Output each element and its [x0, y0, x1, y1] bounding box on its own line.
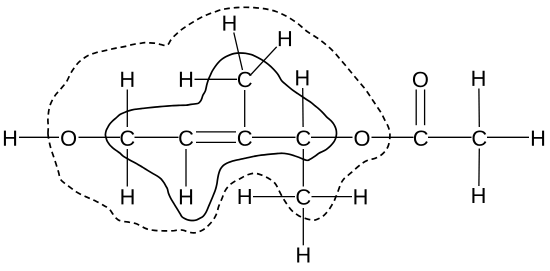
atom O hydroxyl — [61, 130, 76, 145]
bond C2-H vertical lower — [185, 149, 187, 187]
atom H left of upper methyl — [180, 72, 192, 87]
atom H below C2 — [180, 189, 192, 204]
double bond C5=O left line — [415, 90, 417, 126]
dashed blob boundary (outer fragment selection) — [48, 7, 390, 233]
atom C5 carbonyl — [414, 130, 428, 145]
bond C3-Cmethyl vertical — [244, 90, 246, 127]
atom H below C1 — [121, 189, 133, 204]
atom C3 — [238, 130, 252, 145]
bond H-Cmethyl horizontal lower left — [253, 196, 295, 198]
bond H-O — [19, 136, 59, 138]
double bond C2=C3 upper line — [196, 131, 236, 133]
bond Cmethyl-H horizontal lower right — [312, 196, 353, 198]
atom C6 acetyl methyl — [473, 130, 487, 145]
atom O carbonyl — [413, 72, 428, 87]
atom H right of lower methyl — [354, 189, 366, 204]
bond H-C6 vertical upper — [478, 89, 480, 128]
bond H-Cmethyl horizontal upper — [195, 78, 238, 80]
bond O-C1 — [79, 136, 121, 138]
double bond C5=O right line — [424, 90, 426, 126]
bond H-Cmethyl diagonal upper right — [251, 47, 277, 75]
bond C5-C6 — [428, 136, 472, 138]
atom H top-right of upper methyl — [279, 31, 291, 46]
bond C1-C2 — [135, 136, 179, 138]
bond H-C4 vertical upper — [302, 88, 304, 127]
atom H top-left of upper methyl — [223, 16, 235, 31]
atom H left of lower methyl — [239, 189, 251, 204]
bond C3-C4 — [252, 136, 296, 138]
atom C lower methyl — [297, 189, 311, 204]
bond C4-O — [311, 136, 353, 138]
atom O ester — [355, 130, 370, 145]
atom C2 — [179, 130, 193, 145]
atom H hydroxyl (far left) — [4, 131, 16, 146]
bond Cmethyl-H vertical bottom — [302, 208, 304, 245]
atom H below C6 — [472, 188, 484, 203]
atom H above C4 — [296, 70, 308, 85]
bond C6-H vertical lower — [478, 149, 480, 187]
atom C4 — [297, 130, 311, 145]
atom H far right — [532, 131, 544, 146]
bond C6-H — [487, 136, 529, 138]
bond O-C5 — [372, 136, 414, 138]
bond H-Cmethyl diagonal upper left — [234, 33, 243, 71]
atom H above C6 — [472, 71, 484, 86]
atom C upper methyl — [238, 72, 252, 87]
bond H-C1 vertical upper — [126, 90, 128, 128]
atom C1 — [121, 130, 135, 145]
atom H below lower methyl — [297, 247, 309, 262]
bond C4-Cmethyl vertical — [302, 149, 304, 187]
double bond C2=C3 lower line — [196, 141, 236, 143]
atom H above C1 — [121, 72, 133, 87]
bond C1-H vertical lower — [126, 149, 128, 187]
solid blob boundary (inner carbon-skeleton selection) — [105, 53, 336, 221]
